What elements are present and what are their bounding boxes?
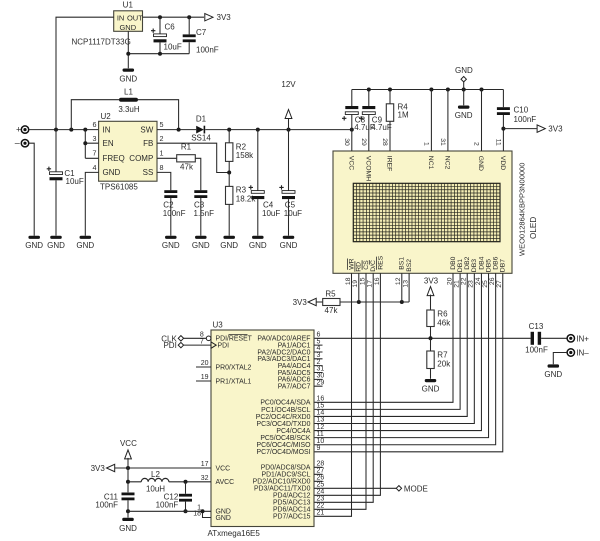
svg-text:16: 16 xyxy=(374,277,381,285)
svg-text:PD2/ADC10/RXD0: PD2/ADC10/RXD0 xyxy=(253,479,311,486)
svg-text:–: – xyxy=(15,138,20,148)
wire DB5 to PC5 xyxy=(314,273,489,437)
svg-text:PDI: PDI xyxy=(163,341,176,350)
svg-text:PC5/OC4B/SCK: PC5/OC4B/SCK xyxy=(260,435,311,442)
svg-text:FREQ: FREQ xyxy=(103,154,125,163)
capacitor C11 100nF xyxy=(122,493,135,496)
wire AVCC row (L2 leads) xyxy=(128,481,211,483)
wire VCC node down (C11 branch) xyxy=(127,468,129,492)
capacitor C5 10uF xyxy=(288,130,290,191)
svg-text:VCC: VCC xyxy=(347,156,354,170)
svg-text:R1: R1 xyxy=(181,143,192,152)
svg-text:L1: L1 xyxy=(124,87,133,96)
svg-text:D1: D1 xyxy=(196,115,207,124)
wire L1 right lead to SW xyxy=(138,100,179,130)
resistor R4 1M xyxy=(389,90,391,104)
svg-text:GND: GND xyxy=(422,385,440,394)
svg-text:RD: RD xyxy=(356,262,363,272)
ground (input -) xyxy=(28,236,40,239)
svg-text:17: 17 xyxy=(367,280,374,288)
svg-text:20k: 20k xyxy=(437,359,451,368)
svg-text:WEO012864KBPP3N00000: WEO012864KBPP3N00000 xyxy=(517,163,526,256)
capacitor C2 100nF xyxy=(164,190,177,193)
svg-text:100nF: 100nF xyxy=(163,209,186,218)
svg-text:158k: 158k xyxy=(236,151,254,160)
wire DB4 to PC4 xyxy=(314,273,481,430)
svg-text:IN–: IN– xyxy=(576,349,589,358)
svg-text:7: 7 xyxy=(93,149,97,158)
ground (C11) xyxy=(122,518,134,521)
svg-text:100nF: 100nF xyxy=(196,46,219,55)
voltage regulator U1 NCP1117DT33G xyxy=(114,11,143,32)
U3 PDI clock marker xyxy=(211,342,216,348)
svg-text:9: 9 xyxy=(317,445,321,452)
terminal IN+ xyxy=(567,335,574,342)
svg-text:24: 24 xyxy=(475,277,482,285)
svg-text:100nF: 100nF xyxy=(514,115,537,124)
svg-text:20: 20 xyxy=(446,277,453,285)
wire NC1 to ground rail xyxy=(430,90,432,152)
svg-text:25: 25 xyxy=(317,482,325,489)
svg-text:13: 13 xyxy=(317,417,325,424)
wire FB feedback route xyxy=(157,143,229,172)
svg-text:IREF: IREF xyxy=(386,156,393,171)
svg-text:6: 6 xyxy=(93,120,97,129)
ground (U2) xyxy=(80,236,92,239)
svg-text:GND: GND xyxy=(162,241,180,250)
svg-text:PD5/ADC13: PD5/ADC13 xyxy=(273,500,311,507)
svg-text:11: 11 xyxy=(317,431,324,438)
svg-text:15: 15 xyxy=(359,277,366,285)
U3 unconnected right stubs xyxy=(314,345,323,481)
svg-text:L2: L2 xyxy=(151,470,160,479)
svg-text:GND: GND xyxy=(280,241,298,250)
wire C13 to IN+ xyxy=(541,337,567,339)
svg-text:29: 29 xyxy=(317,379,325,386)
svg-text:PDI: PDI xyxy=(218,343,230,350)
wire OLED GND pin 2 to ground rail xyxy=(481,90,483,152)
svg-text:R7: R7 xyxy=(437,351,448,360)
svg-text:GND: GND xyxy=(119,75,137,84)
svg-text:18: 18 xyxy=(345,277,352,285)
svg-text:GND: GND xyxy=(103,168,121,177)
capacitor C7 100nF xyxy=(188,17,190,34)
diode D1 SS14 xyxy=(196,126,204,134)
svg-text:GND: GND xyxy=(119,524,137,533)
svg-text:46k: 46k xyxy=(437,318,451,327)
resistor R3 18.2k xyxy=(228,173,230,187)
wire U2 GND pin to ground xyxy=(85,172,98,235)
svg-text:PD3/ADC11/TXD0: PD3/ADC11/TXD0 xyxy=(254,486,311,493)
OLED display WEO012864KBPP3N00000 xyxy=(333,151,512,273)
svg-text:CS: CS xyxy=(363,260,370,270)
inductor L2 10uH xyxy=(141,478,169,481)
U3 unconnected left stubs (XTAL) xyxy=(196,367,211,381)
svg-text:R5: R5 xyxy=(325,290,336,299)
svg-text:10uH: 10uH xyxy=(146,485,165,494)
svg-text:25: 25 xyxy=(482,280,489,288)
svg-text:DB2: DB2 xyxy=(464,256,471,269)
OLED pixel grid xyxy=(353,183,500,241)
svg-text:3.3uH: 3.3uH xyxy=(118,105,140,114)
svg-text:ATxmega16E5: ATxmega16E5 xyxy=(208,529,261,538)
svg-text:PA7/ADC7: PA7/ADC7 xyxy=(278,384,311,391)
svg-text:31: 31 xyxy=(439,138,446,146)
svg-text:23: 23 xyxy=(468,280,475,288)
svg-text:GND: GND xyxy=(47,241,65,250)
svg-text:PD4/ADC12: PD4/ADC12 xyxy=(273,493,311,500)
wire VCC row xyxy=(115,467,211,469)
svg-text:47k: 47k xyxy=(180,163,194,172)
wire DB6 to PC6 xyxy=(314,273,496,444)
resistor R2 158k xyxy=(228,130,230,143)
wire PDI to pin 7 xyxy=(184,344,211,346)
svg-text:3V3: 3V3 xyxy=(91,464,106,473)
svg-text:20: 20 xyxy=(201,360,209,367)
svg-text:R6: R6 xyxy=(437,310,448,319)
svg-text:GND: GND xyxy=(76,241,94,250)
wire NC2 to ground rail xyxy=(447,90,449,152)
wire D/C to PD5 xyxy=(314,273,373,502)
svg-text:27: 27 xyxy=(317,468,325,475)
svg-text:C13: C13 xyxy=(529,322,544,331)
svg-text:14: 14 xyxy=(317,410,325,417)
svg-text:PC3/OC4D/TXD0: PC3/OC4D/TXD0 xyxy=(257,421,311,428)
svg-text:GND: GND xyxy=(216,515,231,522)
wire - terminal to ground xyxy=(29,143,35,236)
svg-text:RES: RES xyxy=(377,255,384,269)
svg-text:3V3: 3V3 xyxy=(548,125,563,134)
svg-text:PC4/OC4A: PC4/OC4A xyxy=(276,428,310,435)
capacitor C12 100nF xyxy=(185,482,187,494)
svg-text:4.7uF: 4.7uF xyxy=(371,123,392,132)
svg-text:SS14: SS14 xyxy=(191,134,211,143)
wire OLED VCC column (12V) xyxy=(351,130,353,151)
capacitor C9 4.7uF xyxy=(368,90,370,107)
svg-text:21: 21 xyxy=(454,280,461,288)
ground (C5) xyxy=(283,236,295,239)
wire BS1 stub xyxy=(401,273,403,302)
power flag 3V3 (U1 output) xyxy=(205,14,213,21)
svg-text:MODE: MODE xyxy=(404,484,428,493)
ground (top rail) xyxy=(463,90,465,106)
svg-text:3V3: 3V3 xyxy=(424,277,439,286)
svg-text:16: 16 xyxy=(317,396,325,403)
svg-text:12: 12 xyxy=(395,277,402,285)
wire U1 IN from input rail xyxy=(56,17,114,129)
svg-text:GND: GND xyxy=(119,23,136,32)
svg-text:DB3: DB3 xyxy=(471,259,478,272)
boost converter U2 TPS61085 xyxy=(99,121,157,181)
svg-text:22: 22 xyxy=(317,503,325,510)
svg-text:24: 24 xyxy=(317,489,325,496)
svg-text:VDD: VDD xyxy=(499,156,506,170)
svg-text:10uF: 10uF xyxy=(262,209,280,218)
wire CS# to PD6 xyxy=(314,273,366,509)
wire U1 ground net xyxy=(128,31,189,68)
wire EN/FREQ tie to input rail xyxy=(85,130,98,159)
resistor R1 47k xyxy=(157,157,177,159)
capacitor C13 100nF xyxy=(531,332,534,345)
power flag 12V xyxy=(288,118,290,130)
resistor R5 47k xyxy=(323,299,340,306)
svg-text:10uF: 10uF xyxy=(164,43,182,52)
svg-text:GND: GND xyxy=(25,241,43,250)
svg-text:COMP: COMP xyxy=(129,154,153,163)
svg-text:BS2: BS2 xyxy=(406,259,413,272)
wire input + rail xyxy=(29,129,99,131)
svg-text:WR: WR xyxy=(348,258,355,269)
svg-text:R3: R3 xyxy=(236,186,247,195)
svg-text:U3: U3 xyxy=(213,321,224,330)
wire DB7 to PC7 xyxy=(314,273,503,451)
svg-text:OUT: OUT xyxy=(127,13,143,22)
ground (C2) xyxy=(165,236,177,239)
power flag 3V3 (OLED VDD) xyxy=(537,125,545,132)
svg-text:IN: IN xyxy=(103,125,111,134)
svg-text:NC2: NC2 xyxy=(444,156,451,170)
svg-text:DB6: DB6 xyxy=(493,256,500,269)
svg-text:2: 2 xyxy=(473,142,480,146)
svg-text:PC7/OC4D/MOSI: PC7/OC4D/MOSI xyxy=(257,449,311,456)
svg-text:1: 1 xyxy=(422,142,429,146)
node MODE terminal xyxy=(396,486,401,491)
svg-text:100nF: 100nF xyxy=(156,501,179,510)
svg-text:PD6/ADC14: PD6/ADC14 xyxy=(273,507,311,514)
svg-text:DB4: DB4 xyxy=(478,256,485,269)
terminal IN- xyxy=(567,349,574,356)
svg-text:AVCC: AVCC xyxy=(216,479,235,486)
svg-text:FB: FB xyxy=(143,139,153,148)
wire 12V rail (D1 cathode to OLED VCC) xyxy=(205,129,352,131)
capacitor C3 1.5nF xyxy=(194,190,207,193)
ground (U1) xyxy=(123,69,135,72)
wire RES# to PD4 xyxy=(314,273,380,495)
svg-text:VCC: VCC xyxy=(216,465,231,472)
svg-text:47k: 47k xyxy=(325,306,339,315)
wire SS to C2 xyxy=(157,172,171,190)
U3 pin 8 inversion bubble xyxy=(206,336,211,341)
svg-text:21: 21 xyxy=(317,510,325,517)
terminal - input xyxy=(21,140,28,147)
capacitor C10 100nF xyxy=(502,90,504,108)
svg-text:SW: SW xyxy=(140,125,153,134)
terminal + input xyxy=(21,126,28,133)
svg-text:17: 17 xyxy=(201,461,209,468)
svg-text:10: 10 xyxy=(317,438,325,445)
wire DB0 to PC0 xyxy=(314,273,453,402)
ground (R3) xyxy=(223,236,235,239)
svg-text:C6: C6 xyxy=(165,23,176,32)
capacitor C1 10uF xyxy=(55,130,57,172)
wire SW to diode D1 xyxy=(157,129,196,131)
svg-text:D/C: D/C xyxy=(370,260,377,272)
microcontroller U3 ATxmega16E5 xyxy=(211,330,314,527)
svg-text:GND: GND xyxy=(192,241,210,250)
svg-text:26: 26 xyxy=(489,277,496,285)
resistor R7 20k xyxy=(430,338,432,351)
svg-text:8: 8 xyxy=(160,163,164,172)
ground (C4) xyxy=(252,236,263,239)
svg-text:1: 1 xyxy=(160,149,164,158)
svg-text:7: 7 xyxy=(200,338,204,345)
wire RD# stub xyxy=(358,273,360,302)
svg-text:30: 30 xyxy=(343,138,350,146)
svg-text:DB0: DB0 xyxy=(450,256,457,269)
ground (R7) xyxy=(425,379,437,382)
svg-text:VCC: VCC xyxy=(120,439,137,448)
wire U1 OUT to 3V3 xyxy=(143,16,205,18)
capacitor C6 10uF xyxy=(159,17,161,34)
svg-text:PR1/XTAL1: PR1/XTAL1 xyxy=(216,378,252,385)
svg-text:1M: 1M xyxy=(398,111,409,120)
wire CLK to pin 8 xyxy=(184,337,207,339)
svg-text:10uF: 10uF xyxy=(66,177,84,186)
svg-text:3V3: 3V3 xyxy=(217,13,232,22)
svg-text:28: 28 xyxy=(381,138,388,146)
wire R5 to RD#/BS1/BS2 xyxy=(340,273,409,302)
resistor R6 46k xyxy=(427,310,434,327)
svg-text:IN: IN xyxy=(117,13,125,22)
svg-text:PC6/OC4C/MISO: PC6/OC4C/MISO xyxy=(257,442,312,449)
svg-text:1.5nF: 1.5nF xyxy=(194,209,215,218)
svg-text:12V: 12V xyxy=(281,80,296,89)
svg-text:SS: SS xyxy=(143,168,154,177)
wire DB3 to PC3 xyxy=(314,273,474,423)
svg-text:BS1: BS1 xyxy=(399,257,406,270)
svg-text:VCOMH: VCOMH xyxy=(364,156,371,181)
wire IN- to ground xyxy=(553,353,567,365)
svg-text:DB7: DB7 xyxy=(500,259,507,272)
svg-text:100nF: 100nF xyxy=(95,501,118,510)
capacitor C8 4.7uF xyxy=(351,90,353,107)
svg-text:NCP1117DT33G: NCP1117DT33G xyxy=(72,37,131,46)
svg-text:PR0/XTAL2: PR0/XTAL2 xyxy=(216,364,252,371)
ground (IN-) xyxy=(548,364,560,367)
svg-text:U1: U1 xyxy=(123,1,134,10)
svg-text:OLED: OLED xyxy=(529,217,538,239)
svg-text:11: 11 xyxy=(494,139,501,146)
svg-text:NC1: NC1 xyxy=(427,156,434,170)
svg-text:EN: EN xyxy=(103,139,114,148)
wire AREF line (PA0 to C13) xyxy=(314,337,531,339)
wire U3 ground row (pins 1,18) xyxy=(128,511,211,517)
svg-text:IN+: IN+ xyxy=(576,334,589,343)
svg-text:U2: U2 xyxy=(101,112,112,121)
svg-text:C7: C7 xyxy=(196,28,207,37)
ground (C3) xyxy=(195,236,207,239)
capacitor C4 10uF xyxy=(257,130,259,191)
svg-text:3: 3 xyxy=(93,134,97,143)
svg-text:PD1/ADC9/SCL: PD1/ADC9/SCL xyxy=(261,472,310,479)
svg-text:28: 28 xyxy=(317,461,325,468)
svg-text:C10: C10 xyxy=(514,105,529,114)
svg-text:15: 15 xyxy=(317,403,325,410)
svg-text:12: 12 xyxy=(317,424,325,431)
svg-text:GND: GND xyxy=(249,241,267,250)
svg-text:PC0/OC4A/SDA: PC0/OC4A/SDA xyxy=(260,400,311,407)
wire DB1 to PC1 xyxy=(314,273,460,409)
wire top ground rail xyxy=(352,89,504,91)
svg-text:GND: GND xyxy=(455,66,473,75)
svg-text:DB5: DB5 xyxy=(485,259,492,272)
svg-text:GND: GND xyxy=(477,156,484,171)
wire WR# to PD7 xyxy=(314,273,352,516)
ground (C1) xyxy=(50,236,62,239)
svg-text:22: 22 xyxy=(461,277,468,285)
svg-text:PD7/ADC15: PD7/ADC15 xyxy=(273,514,311,521)
svg-text:26: 26 xyxy=(317,475,325,482)
svg-text:GND: GND xyxy=(455,111,473,120)
inductor L1 3.3uH xyxy=(119,98,138,102)
svg-text:PC1/OC4B/SCL: PC1/OC4B/SCL xyxy=(261,407,311,414)
wire L1 left lead to input rail xyxy=(71,100,119,130)
svg-text:27: 27 xyxy=(496,280,503,288)
svg-text:PD0/ADC8/SDA: PD0/ADC8/SDA xyxy=(261,465,311,472)
svg-text:GND: GND xyxy=(220,241,238,250)
svg-text:19: 19 xyxy=(352,280,359,288)
svg-text:19: 19 xyxy=(201,374,209,381)
svg-text:32: 32 xyxy=(201,475,209,482)
svg-text:100nF: 100nF xyxy=(525,345,548,354)
svg-text:29: 29 xyxy=(360,138,367,146)
svg-text:23: 23 xyxy=(317,496,325,503)
svg-text:+: + xyxy=(16,124,21,134)
svg-text:2: 2 xyxy=(160,134,164,143)
svg-text:4: 4 xyxy=(93,163,97,172)
wire VDD 3V3 branch xyxy=(503,128,536,130)
svg-text:GND: GND xyxy=(544,370,562,379)
svg-text:3V3: 3V3 xyxy=(293,298,308,307)
svg-text:R2: R2 xyxy=(236,142,247,151)
svg-text:TPS61085: TPS61085 xyxy=(100,183,138,192)
U3 PDI/RESET overbar xyxy=(229,334,248,336)
svg-text:5: 5 xyxy=(160,120,164,129)
svg-text:DB1: DB1 xyxy=(457,259,464,272)
wire DB2 to PC2 xyxy=(314,273,467,416)
svg-text:13: 13 xyxy=(403,280,410,288)
svg-text:10uF: 10uF xyxy=(284,209,302,218)
svg-text:PC2/OC4C/RXD0: PC2/OC4C/RXD0 xyxy=(256,414,311,421)
wire PD3 to MODE xyxy=(314,487,396,489)
